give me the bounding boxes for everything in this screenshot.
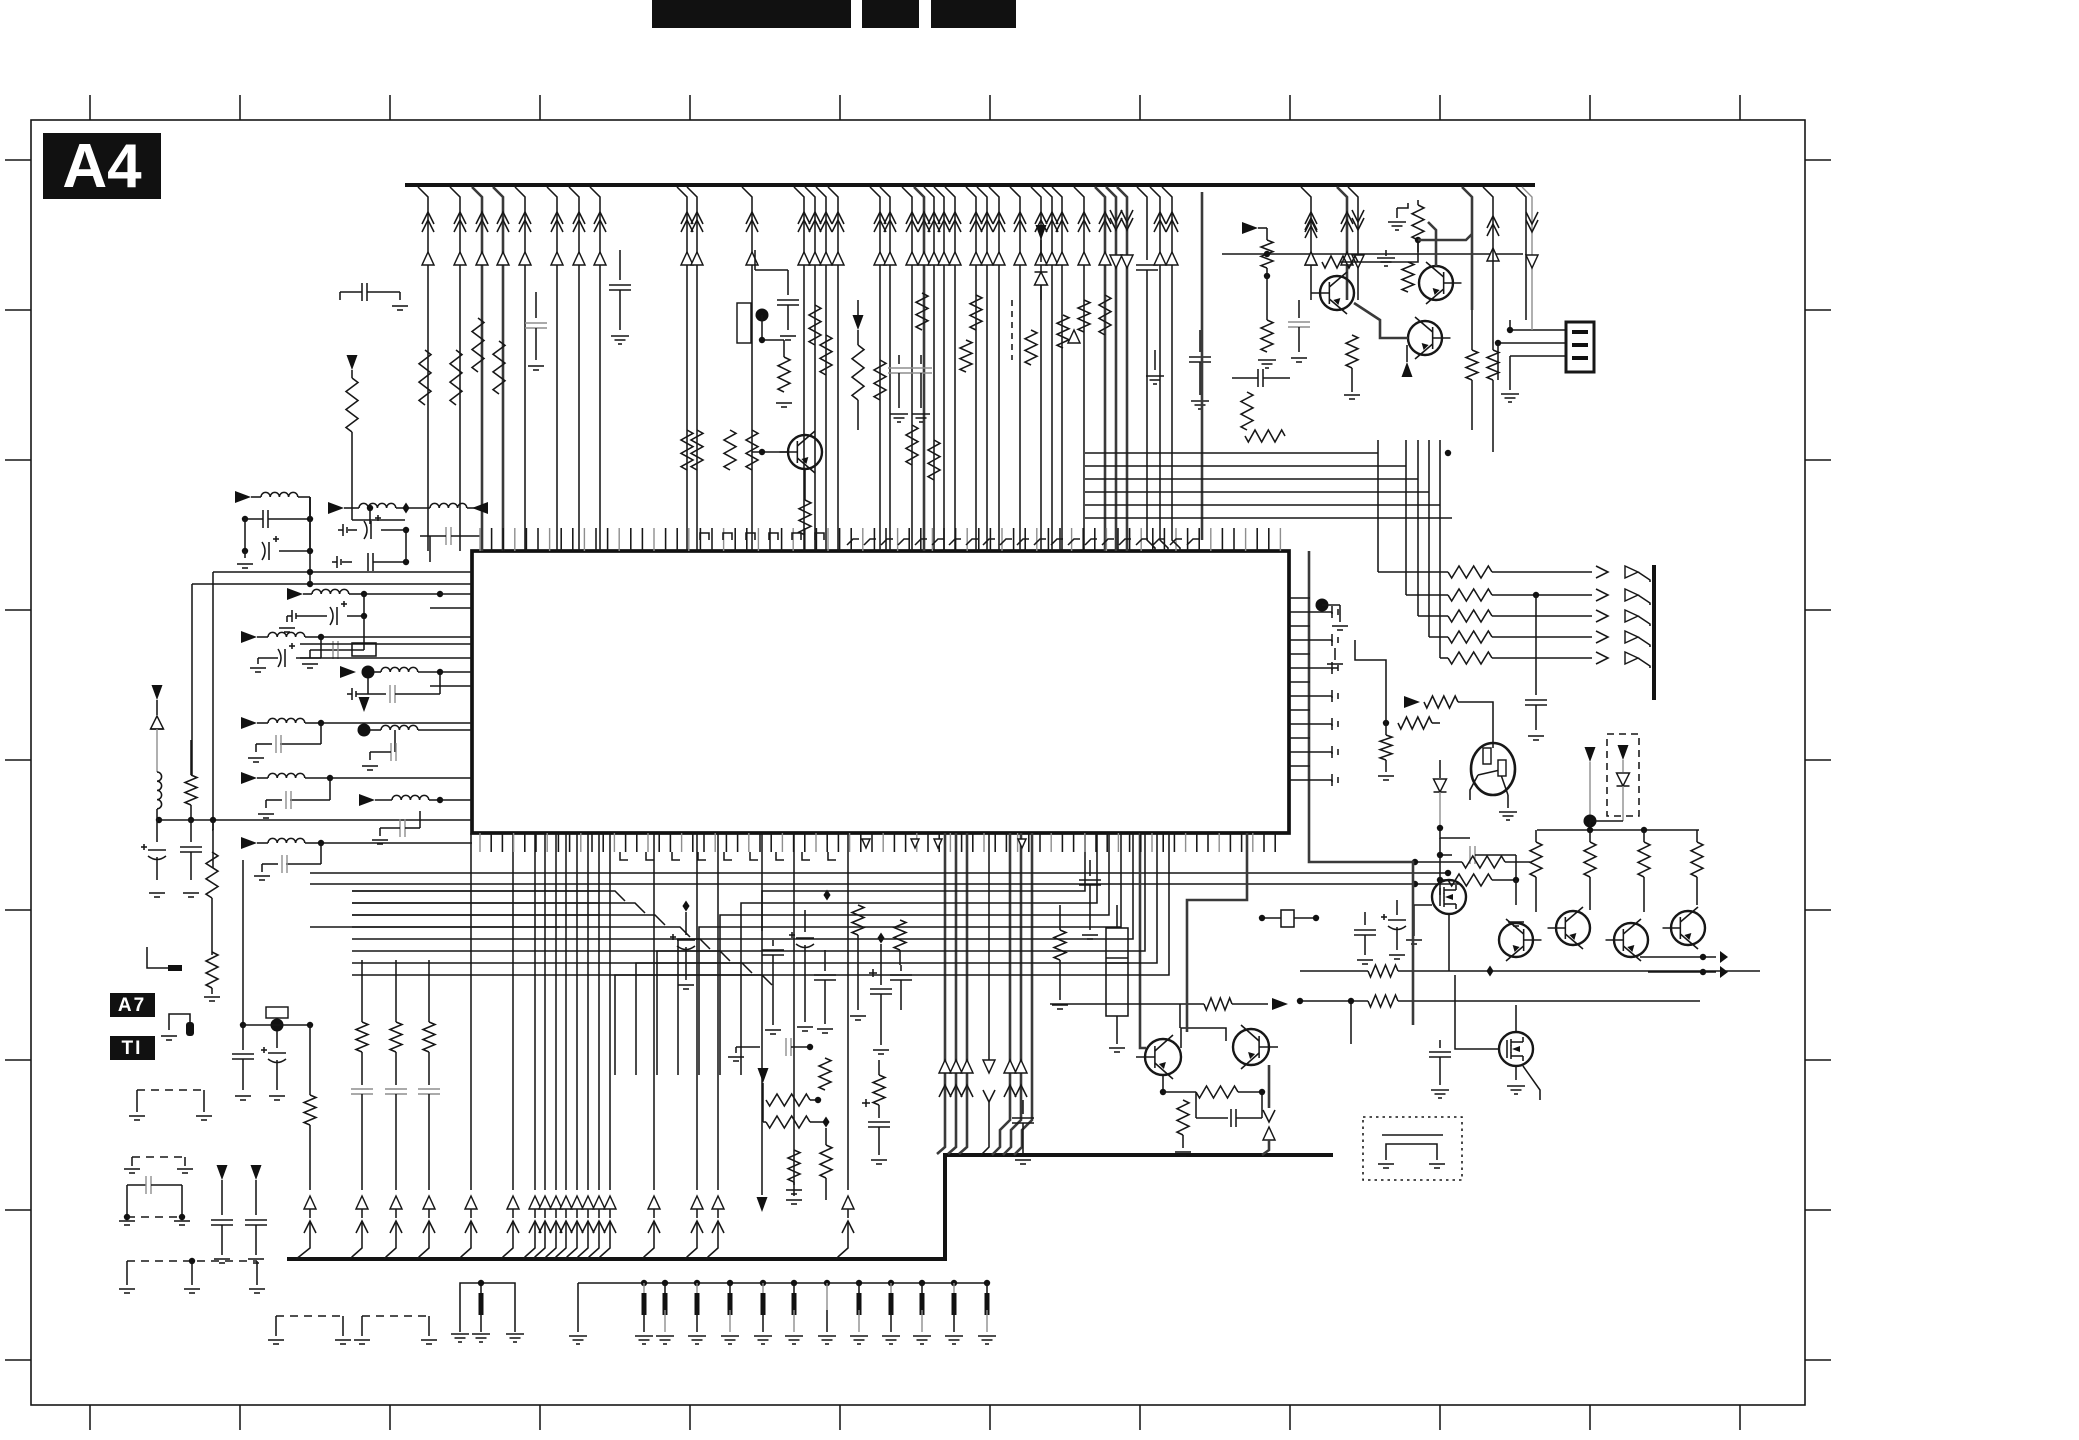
jumper pair JP5	[275, 1316, 277, 1336]
resistor R23	[1099, 295, 1111, 335]
mid res R40	[819, 1058, 831, 1090]
svg-text:A7: A7	[118, 995, 146, 1016]
power resistor PR4	[1691, 842, 1703, 877]
wire W7 from top bus	[569, 187, 579, 540]
capacitor C11	[1298, 300, 1300, 318]
mosfet M1	[1432, 880, 1466, 914]
wire W31 from top bus	[1095, 187, 1105, 540]
IC right big dot	[1316, 599, 1329, 612]
resistor R31	[1466, 350, 1478, 380]
resistor R16	[906, 425, 918, 465]
resistor R13	[874, 360, 886, 400]
wire W9 from top bus	[677, 187, 687, 540]
wire TR1	[1340, 240, 1418, 262]
mid diamond D5	[877, 933, 884, 944]
mid cap C16	[772, 940, 774, 946]
left far coil	[157, 772, 162, 809]
left row10 coil	[241, 837, 257, 849]
left row2 caps	[369, 508, 371, 524]
left row4 caps	[367, 678, 369, 694]
wire W3 from top bus	[472, 187, 482, 540]
wire W17 from top bus	[880, 187, 890, 540]
chev pair CP1	[1305, 218, 1317, 230]
left row2 right cap	[429, 536, 431, 562]
wire W28 from top bus	[1042, 187, 1052, 540]
fan row resistor FR1	[1377, 470, 1379, 572]
bottom thick group TG1	[937, 833, 945, 1154]
cross wire X1	[1050, 1003, 1180, 1005]
solid arrow A3	[1402, 362, 1413, 377]
wire W2 from top bus	[450, 187, 460, 540]
wire W21 from top bus	[934, 187, 944, 540]
mosfet M2 wires	[1455, 975, 1499, 1049]
resistor R15	[916, 293, 928, 330]
diode D2	[1439, 760, 1441, 778]
wire W16 from top bus	[870, 187, 880, 540]
bottom wire B13	[717, 833, 719, 1190]
resistor R10	[746, 430, 758, 470]
wire W29 from top bus	[1052, 187, 1062, 540]
IC top pin stubs	[479, 528, 481, 551]
IC top step glyphs	[700, 533, 709, 540]
left vertical bus V2	[191, 584, 193, 775]
ground G2	[1396, 208, 1398, 218]
wire W1172	[1162, 187, 1180, 551]
mid res R46	[1054, 930, 1066, 960]
wire W10 from top bus	[687, 187, 697, 540]
wire W35 from top bus	[1337, 187, 1347, 300]
bottom wire B4	[544, 833, 546, 1190]
top supply bus wire	[405, 183, 1535, 187]
dashed box DB1	[1607, 734, 1639, 816]
capacitor C6 pair	[898, 355, 900, 364]
thick wire TW3	[1187, 833, 1247, 1032]
black redaction bar 2	[862, 0, 919, 28]
res pair RH1	[1368, 965, 1398, 977]
staircase bundle left	[352, 891, 625, 901]
IC U1 main block	[472, 551, 1289, 833]
mid tri A7a	[758, 1068, 769, 1083]
dashed link DL1	[1011, 300, 1013, 360]
bottom wire B11	[653, 833, 655, 1190]
transistor Q7	[1556, 911, 1590, 945]
node junction J1	[756, 309, 769, 322]
left row2 coil pair	[328, 502, 344, 514]
q exit arrows	[1263, 1110, 1275, 1122]
left col arrow down	[309, 1125, 311, 1190]
q hcap C24	[1195, 1092, 1197, 1118]
wire W1147	[1137, 187, 1147, 230]
wire W36 from top bus	[1348, 187, 1358, 300]
left col node	[242, 860, 244, 1025]
IC right gnd2	[1334, 648, 1336, 660]
fan row resistor FR4	[1428, 470, 1430, 637]
long h wire LH1	[1222, 253, 1523, 255]
mid cap C18	[900, 965, 902, 971]
jumper pair JP2	[131, 1157, 133, 1166]
riser column RC3	[428, 960, 430, 1022]
wire W27 from top bus	[1031, 187, 1041, 540]
mosfet M1 wires	[1448, 914, 1450, 940]
resistor R28 h	[1322, 256, 1358, 268]
svg-text:A4: A4	[62, 132, 142, 201]
wire W15 from top bus	[828, 187, 838, 540]
node box FB1	[737, 303, 751, 343]
transistor Q1	[788, 435, 822, 469]
bottom wire B3	[534, 833, 536, 1190]
wire W6 from top bus	[547, 187, 557, 540]
riser column RC2	[395, 960, 397, 1022]
IC right pin grounds	[1310, 611, 1332, 613]
wire W25 from top bus	[989, 187, 999, 540]
down arrow wire DW1	[1522, 187, 1532, 330]
left row6 mid	[359, 697, 370, 712]
label TI box	[110, 1036, 155, 1060]
wire W1160	[1150, 187, 1168, 551]
left row1 coil	[235, 491, 251, 503]
right bundle verticals	[1377, 440, 1379, 470]
schematic border frame	[31, 120, 1805, 1405]
top right res	[1462, 856, 1505, 868]
wire W34 from top bus	[1301, 187, 1311, 300]
mid res R41	[788, 1150, 800, 1182]
left row3	[287, 588, 303, 600]
wire W11 from top bus	[742, 187, 752, 540]
resistor R21	[1057, 315, 1069, 348]
left far diode chain	[152, 685, 163, 700]
mid diamond D3	[682, 901, 689, 912]
bottom wire B12	[696, 833, 698, 1190]
hook wire HK2	[169, 1014, 190, 1030]
wire W14 from top bus	[816, 187, 826, 540]
wire W30 from top bus	[1074, 187, 1084, 540]
dashed box contents	[1618, 745, 1629, 760]
left h wires into IC	[300, 643, 472, 645]
resistor R7	[691, 430, 703, 470]
mosfet M2	[1499, 1032, 1533, 1066]
res pair RH2	[1368, 995, 1398, 1007]
resistor R11	[809, 305, 821, 345]
wire 1351 drop	[1350, 1001, 1352, 1044]
left row5 caps	[320, 723, 322, 744]
svg-text:TI: TI	[122, 1038, 143, 1059]
capacitor C2	[535, 292, 537, 318]
left row9 coil	[241, 631, 257, 643]
bottom solid arrow BA1	[761, 833, 763, 1195]
power resistor PR2	[1584, 842, 1596, 877]
IC bottom pin stubs	[479, 833, 481, 852]
jumper pair JP6	[361, 1316, 363, 1336]
transistor Q4	[1408, 321, 1442, 355]
left vertical bus V1	[212, 572, 214, 868]
transistor Q8	[1614, 923, 1648, 957]
staircase tails	[614, 1015, 616, 1075]
label A7 box	[110, 993, 155, 1017]
capacitor C9	[1199, 330, 1201, 352]
wire W26 from top bus	[1010, 187, 1020, 540]
sheet label A4 box	[43, 133, 161, 199]
capacitor C5	[857, 300, 859, 316]
resistor R33 h	[1398, 717, 1432, 729]
left h wire H1	[213, 571, 472, 573]
left row5	[241, 717, 257, 729]
resistor R37	[206, 952, 218, 988]
mid cap C21	[1089, 860, 1091, 876]
resistor R8	[761, 330, 763, 340]
wire W23 from top bus	[966, 187, 976, 540]
bottom wire B9	[598, 833, 600, 1190]
black redaction bar 3	[931, 0, 1016, 28]
thick wire TW1	[1201, 192, 1204, 540]
feeder h wires	[352, 890, 600, 892]
resistor R27	[1417, 200, 1419, 205]
fan capacitor	[1535, 595, 1537, 695]
cross wire X2	[944, 1154, 946, 1156]
left row8 caps	[399, 819, 401, 837]
mid ecap E3	[862, 1102, 870, 1104]
fan collector bus	[1652, 565, 1656, 700]
mid cap C17	[824, 950, 826, 971]
left mid box FB2	[352, 643, 376, 656]
solid arrow col A5	[217, 1165, 228, 1180]
cap col C13	[1364, 912, 1366, 925]
solid arrow A1	[1036, 225, 1047, 240]
wire W32 from top bus	[1106, 187, 1116, 540]
left row9 caps	[320, 637, 322, 658]
solid arrow A2	[1242, 222, 1258, 234]
wire W12 from top bus	[794, 187, 804, 540]
resistor R18	[960, 340, 972, 372]
fan row resistor FR2	[1405, 470, 1407, 595]
bottom wire B2	[512, 833, 514, 1190]
ecap col C14	[1396, 900, 1398, 915]
diode D1	[1040, 240, 1042, 262]
transistor Q9	[1671, 911, 1705, 945]
long h wire LHB2	[310, 883, 1460, 885]
transistor Q2	[1320, 276, 1354, 310]
chev pair CP2	[1487, 216, 1499, 228]
fan row resistor FR3	[1417, 470, 1419, 616]
resistor R29	[1346, 335, 1358, 368]
connector CN1	[1566, 322, 1594, 372]
resistor R9	[724, 430, 736, 470]
mid res R38	[852, 905, 864, 935]
connector wires	[1510, 329, 1566, 331]
q pair wires	[1140, 1022, 1146, 1048]
transistor Q3	[1419, 266, 1453, 300]
out wires	[1640, 956, 1716, 958]
wire Q1 base	[752, 451, 788, 453]
cap C15	[1439, 1040, 1441, 1048]
resistor R25 h	[1245, 430, 1285, 442]
resistor R14 tall	[852, 345, 864, 400]
capacitor C7 pair	[920, 355, 922, 364]
wire W33 from top bus	[1117, 187, 1127, 540]
resistor R35 h	[1448, 874, 1492, 886]
left row4 mid	[340, 666, 356, 678]
resistor R4	[472, 318, 484, 372]
staircase tails 2	[656, 991, 658, 1075]
wire W8 from top bus	[590, 187, 600, 540]
ground G1	[1154, 350, 1156, 370]
bottom stub rail left	[460, 1283, 515, 1310]
wire Q2-Q4 couple	[1354, 303, 1408, 338]
bottom stub columns right	[643, 1283, 645, 1310]
ground G3	[1344, 394, 1360, 396]
wire QD join	[1440, 828, 1470, 838]
mid ecap E1	[677, 939, 695, 941]
bottom stub rail right	[578, 1282, 987, 1284]
left resistor R36	[212, 820, 214, 830]
dotted box DTB1	[1363, 1117, 1462, 1180]
bottom group arrows	[939, 1060, 951, 1073]
bottom wire B10	[609, 833, 611, 1190]
left col wire down	[309, 1025, 311, 1095]
left row8 mid	[359, 794, 375, 806]
left row7	[241, 772, 257, 784]
node big J2	[1584, 815, 1597, 828]
power resistor PR1	[1530, 842, 1542, 877]
q pair hres1	[1204, 998, 1232, 1010]
left row6 caps	[394, 730, 396, 752]
left row1 vjoin	[309, 497, 311, 519]
left far h wire	[157, 819, 472, 821]
bottom wire B7	[576, 833, 578, 1190]
mid hres HR1	[762, 1098, 764, 1100]
bottom thick group TG2	[992, 833, 1010, 1155]
q res R47	[1177, 1100, 1189, 1135]
crystal X1	[1281, 910, 1294, 927]
resistor R26	[1266, 228, 1268, 240]
wire 1493 up	[1483, 187, 1493, 330]
solid arrow A4	[1585, 747, 1596, 762]
right h bundle	[1085, 452, 1378, 454]
left row10 caps	[320, 843, 322, 864]
bottom bus wire	[287, 1155, 1333, 1259]
staircase channel	[762, 833, 1085, 931]
wire W24 from top bus	[977, 187, 987, 540]
left far resistor	[190, 740, 192, 775]
IC bottom step glyphs	[620, 852, 628, 860]
transistor Q10	[1145, 1039, 1181, 1075]
bottom stub fats left	[479, 1293, 484, 1315]
thick chamfer 1472	[1462, 187, 1472, 310]
left row3 caps	[363, 594, 365, 616]
wire W13 from top bus	[805, 187, 815, 540]
wire W5 from top bus	[515, 187, 525, 540]
resistor R17	[928, 440, 940, 480]
thick wire TW4	[1309, 551, 1413, 1025]
mid diamond D4	[823, 890, 830, 901]
power resistor PR3	[1638, 842, 1650, 877]
mid hres HR2	[766, 1116, 810, 1128]
jumper pair JP1	[136, 1090, 138, 1112]
wire W4 from top bus	[493, 187, 503, 540]
resistor R6	[681, 430, 693, 470]
dotted box contents	[1382, 1134, 1443, 1136]
resistor R24	[1241, 392, 1253, 430]
frame tick marks	[89, 95, 91, 120]
resistor R20	[1025, 330, 1037, 365]
power row rail	[1537, 829, 1699, 831]
resistor R30	[1402, 262, 1414, 292]
fan row resistor FR5	[1439, 470, 1441, 658]
left row1 caps	[242, 516, 248, 522]
q exit wire	[1268, 1065, 1271, 1108]
wire W19 from top bus	[914, 187, 924, 540]
mid res R43	[873, 1075, 885, 1105]
resistor R12	[820, 335, 832, 375]
bottom wire B8	[587, 833, 589, 1190]
mid res R39	[894, 920, 906, 950]
wire W22 from top bus	[945, 187, 955, 540]
IC right pin stubs	[1289, 597, 1310, 599]
bottom wire B14	[847, 833, 849, 1190]
bottom gnd stub BG1	[793, 833, 795, 1185]
resistor R3	[450, 350, 462, 405]
ground G4	[1385, 250, 1387, 256]
capacitor C3 gnd	[619, 250, 621, 280]
arrow resistor AR1	[1404, 696, 1420, 708]
resistor R22	[1078, 300, 1090, 332]
wire W18 from top bus	[902, 187, 912, 540]
resistor R2	[419, 350, 431, 405]
bottom group arrows2	[1004, 1060, 1016, 1073]
wire Q3 up	[1428, 222, 1436, 266]
q pair hres2	[1196, 1086, 1238, 1098]
resistor R5	[493, 341, 505, 394]
resistor R1 with arrow	[347, 355, 358, 370]
capacitor C1 with ground	[340, 291, 362, 293]
resistor R19	[970, 295, 982, 330]
tall component TC1	[1106, 928, 1128, 1016]
left row7 caps	[329, 778, 331, 800]
left h wire H2	[192, 583, 472, 585]
mid res R42	[820, 1145, 832, 1178]
capacitor C10	[1257, 369, 1259, 387]
capacitor C8	[1146, 230, 1148, 260]
resistor R34	[1385, 723, 1387, 735]
wire left drop	[1355, 640, 1386, 723]
capacitor C4	[754, 250, 756, 270]
wire W20 from top bus	[924, 187, 934, 540]
wire W1 from top bus	[418, 187, 428, 540]
bottom wire B6	[565, 833, 567, 1190]
upper small arrows row	[862, 839, 870, 848]
black redaction bar 1 (title)	[652, 0, 851, 28]
resistor R32	[1487, 350, 1499, 380]
jumper triple JP4	[126, 1261, 128, 1285]
transistor Q5 power	[1471, 743, 1515, 795]
mid plus cap PC1	[880, 960, 882, 985]
mid cap C19	[1022, 1100, 1024, 1114]
bottom wire B5	[555, 833, 557, 1190]
bottom wire B1	[470, 833, 472, 1190]
transistor Q6	[1499, 923, 1533, 957]
cap jumper JP3	[126, 1185, 128, 1217]
left far caps	[156, 820, 158, 842]
long h wire LHB1	[310, 872, 1445, 874]
mid ecap E2	[804, 910, 806, 932]
capacitor C12	[1440, 854, 1452, 856]
solid arrow col A6	[251, 1165, 262, 1180]
mid hcap HC1	[736, 1046, 760, 1048]
transistor Q11	[1233, 1029, 1269, 1065]
thick wire TW5	[1139, 833, 1142, 1022]
hook wire HK1	[147, 947, 168, 968]
down arrow DA2	[988, 833, 990, 1060]
riser column RC1	[361, 960, 363, 1022]
